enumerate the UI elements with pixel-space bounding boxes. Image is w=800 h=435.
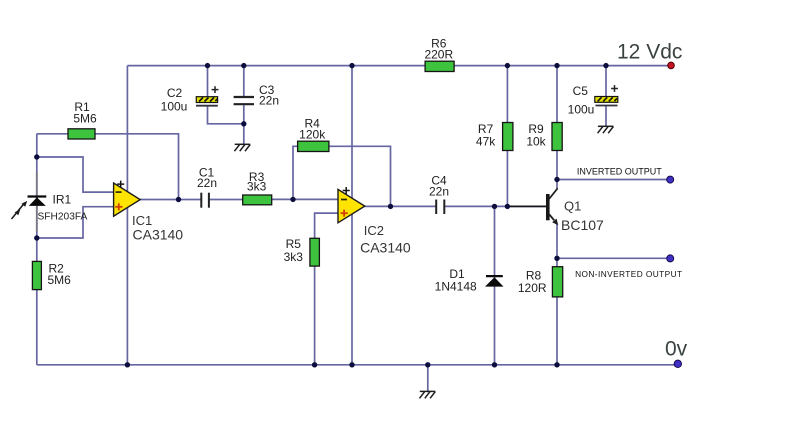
svg-text:22n: 22n xyxy=(429,185,449,199)
junction R3/R4/IC2 input xyxy=(290,197,295,202)
resistor R8 xyxy=(552,267,562,297)
svg-text:NON-INVERTED OUTPUT: NON-INVERTED OUTPUT xyxy=(575,269,682,279)
label C4 xyxy=(429,174,449,199)
svg-text:120R: 120R xyxy=(518,281,547,295)
junction IC2 supply/0v rail xyxy=(349,362,354,367)
wire left loop vertical (IR1/R2 chain) xyxy=(36,134,38,365)
wire R9 top lead xyxy=(556,66,558,123)
junction ground stub/0v rail xyxy=(425,362,430,367)
ground below C3 xyxy=(234,144,250,151)
junction R8/0v rail xyxy=(554,362,559,367)
terminal inverted output xyxy=(667,176,674,183)
svg-text:R5: R5 xyxy=(286,237,302,251)
svg-text:Q1: Q1 xyxy=(564,199,581,214)
svg-text:IC2: IC2 xyxy=(364,223,384,238)
label C1 xyxy=(197,165,217,190)
svg-text:5M6: 5M6 xyxy=(48,273,72,287)
svg-text:3k3: 3k3 xyxy=(284,250,304,264)
svg-text:C2: C2 xyxy=(167,86,183,100)
junction IC2 supply/rail xyxy=(349,63,354,68)
wire R3 to IC2 inverting input xyxy=(272,198,338,200)
junction D1/base wire xyxy=(492,204,497,209)
svg-text:3k3: 3k3 xyxy=(247,180,267,194)
resistor R7 xyxy=(503,123,513,151)
resistor R4 xyxy=(298,141,329,151)
junction R9/rail xyxy=(554,63,559,68)
svg-text:BC107: BC107 xyxy=(561,217,604,233)
ground below C5 xyxy=(598,126,614,133)
terminal 12 Vdc xyxy=(668,62,675,69)
wire inverted output xyxy=(557,179,667,181)
resistor R5 xyxy=(310,238,320,266)
svg-text:0v: 0v xyxy=(665,338,688,361)
terminal 0v xyxy=(674,360,681,367)
svg-text:5M6: 5M6 xyxy=(73,112,97,126)
wire C5 bottom lead to ground xyxy=(605,106,607,126)
wire IC1 supply vertical (rail left drop to 0v) xyxy=(126,66,128,365)
svg-text:10k: 10k xyxy=(526,134,546,148)
diode D1 xyxy=(485,276,504,287)
svg-text:220R: 220R xyxy=(424,48,453,62)
wire C2 top lead xyxy=(207,66,209,97)
label R4 xyxy=(299,117,326,142)
svg-text:CA3140: CA3140 xyxy=(360,239,411,255)
label R1 xyxy=(73,100,97,126)
label IC2 CA3140 xyxy=(360,223,411,255)
op-amp U2 IC2 xyxy=(338,187,365,223)
label C3 xyxy=(259,83,279,108)
wire R8 bottom lead xyxy=(556,297,558,365)
junction emitter/non-inverted output xyxy=(554,256,559,261)
label D1 xyxy=(435,267,477,294)
wire non-inverted output xyxy=(557,257,667,259)
wire IC2 output to C4 xyxy=(365,205,436,207)
op-amp IC1 xyxy=(114,181,141,217)
junction collector/inverted output xyxy=(554,177,559,182)
wire D1 branch vertical xyxy=(494,206,496,364)
svg-text:47k: 47k xyxy=(476,134,496,148)
svg-text:IR1: IR1 xyxy=(53,193,72,207)
label C5 xyxy=(568,84,595,117)
wire IC1 output to C1 xyxy=(140,199,201,201)
junction IC1 output/R1 feedback xyxy=(176,197,181,202)
svg-text:100u: 100u xyxy=(568,103,595,117)
svg-text:INVERTED OUTPUT: INVERTED OUTPUT xyxy=(577,166,662,176)
wire R7 branch vertical xyxy=(506,66,508,207)
svg-text:12 Vdc: 12 Vdc xyxy=(617,41,682,64)
junction C5/rail xyxy=(603,63,608,68)
svg-text:100u: 100u xyxy=(161,99,188,113)
svg-text:120k: 120k xyxy=(299,128,326,142)
resistor R9 xyxy=(552,123,562,151)
wire R1 right lead + feedback drop xyxy=(95,134,179,200)
label R5 xyxy=(284,237,304,264)
wire R4 right lead + drop to IC2 output xyxy=(329,146,391,206)
wire R1 left lead xyxy=(37,133,68,135)
resistor R1 xyxy=(68,129,95,139)
wire C3 bottom lead to ground xyxy=(243,105,245,144)
wire 0v rail xyxy=(37,364,675,366)
resistor R6 xyxy=(425,61,454,71)
wire IC2 non-inverting input from R5 node xyxy=(315,213,338,238)
photodiode IR1 lead (gray) xyxy=(36,172,38,232)
capacitor C5 (electrolytic) xyxy=(595,85,618,105)
label R7 xyxy=(476,122,496,148)
junction R5/0v rail xyxy=(312,362,317,367)
resistor R2 xyxy=(32,261,41,289)
wire Q1 emitter vertical to R8 xyxy=(556,224,558,267)
svg-text:1N4148: 1N4148 xyxy=(435,280,477,294)
wire R9 bottom to Q1 collector xyxy=(556,151,558,189)
junction IC1 supply/0v rail xyxy=(125,362,130,367)
wire C3 top lead xyxy=(243,66,245,96)
label R6 xyxy=(424,36,453,61)
terminal non-inverted output xyxy=(667,255,674,262)
wire C2 bottom lead to C3 node xyxy=(208,107,244,124)
capacitor C3 xyxy=(234,97,254,104)
photodiode IR1 xyxy=(12,197,47,220)
junction R7/rail xyxy=(505,63,510,68)
junction D1/0v rail xyxy=(492,362,497,367)
label C2 xyxy=(161,86,188,113)
wire IC2 supply vertical xyxy=(351,66,353,365)
wire C4 to Q1 base xyxy=(444,205,546,207)
resistor R3 xyxy=(243,195,272,205)
node B (IR1/R2/non-inverting) xyxy=(34,235,39,240)
label R3 xyxy=(247,170,267,194)
label R8 xyxy=(518,268,547,295)
wire 12V rail xyxy=(127,65,667,67)
svg-text:SFH203FA: SFH203FA xyxy=(38,212,88,223)
svg-text:22n: 22n xyxy=(259,93,279,107)
junction IC2 output/R4 xyxy=(388,204,393,209)
transistor Q1 xyxy=(508,188,558,225)
ground on 0v rail stub xyxy=(420,391,436,398)
node A (R1/IR1/inverting) xyxy=(34,154,39,159)
capacitor C4 xyxy=(436,200,444,215)
wire R5 bottom lead xyxy=(314,266,316,365)
svg-text:C5: C5 xyxy=(573,84,589,98)
label R9 xyxy=(526,122,546,148)
svg-text:22n: 22n xyxy=(197,176,217,190)
wire 0v ground stub xyxy=(427,365,429,392)
svg-text:CA3140: CA3140 xyxy=(133,227,184,243)
label IC1 CA3140 xyxy=(132,213,183,242)
junction C3/rail xyxy=(241,63,246,68)
label IR1 xyxy=(38,193,88,223)
wire R4 left lead xyxy=(293,146,298,199)
wire node B to IC1 non-inverting input xyxy=(37,207,114,238)
junction C2/rail xyxy=(205,63,210,68)
label Q1 BC107 xyxy=(561,199,604,234)
junction C2/C3 bottom xyxy=(241,121,246,126)
wire node A to IC1 inverting input xyxy=(37,157,114,192)
label R2 xyxy=(48,262,72,288)
wire C5 top lead xyxy=(605,66,607,97)
junction R7/base wire xyxy=(505,204,510,209)
wire C1 to R3 xyxy=(209,199,243,201)
capacitor C1 xyxy=(201,193,209,208)
capacitor C2 (electrolytic) xyxy=(196,86,218,106)
